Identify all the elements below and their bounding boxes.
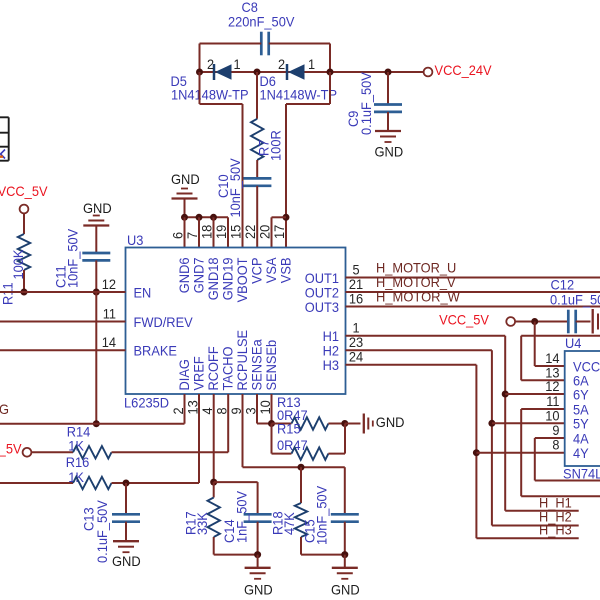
svg-text:C8: C8 xyxy=(242,0,259,15)
svg-text:16: 16 xyxy=(349,291,364,306)
svg-text:1: 1 xyxy=(233,57,240,72)
wire 4A input (pin 9) xyxy=(535,437,565,439)
svg-text:VSB: VSB xyxy=(278,258,293,284)
connector table fragment (clipped at left edge) xyxy=(8,117,10,160)
svg-text:OUT3: OUT3 xyxy=(305,300,340,315)
diode D5 xyxy=(213,64,216,80)
node C9 tap xyxy=(385,69,392,76)
buffer U4 body (SN74LS07) xyxy=(565,351,600,466)
svg-text:R11: R11 xyxy=(1,282,16,305)
svg-text:H_H1: H_H1 xyxy=(539,495,572,510)
wire H3 to 4Y xyxy=(346,364,477,366)
svg-text:GND: GND xyxy=(375,145,404,160)
resistor R17 xyxy=(213,482,215,497)
wire EN to DIAG vertical xyxy=(95,292,97,424)
ground below C15 xyxy=(344,555,346,568)
svg-text:GND: GND xyxy=(331,582,360,597)
svg-text:GND6: GND6 xyxy=(177,257,192,293)
svg-text:5A: 5A xyxy=(573,402,589,417)
svg-text:C12: C12 xyxy=(551,278,575,293)
node RCOFF xyxy=(210,479,217,486)
svg-text:VCC: VCC xyxy=(573,359,600,374)
svg-text:1N4148W-TP: 1N4148W-TP xyxy=(171,87,249,102)
node left diode junction xyxy=(196,69,203,76)
node gnd C14 xyxy=(254,551,261,558)
wire BRAKE (pin 14) xyxy=(0,349,126,351)
wire VCC to U4 pin 14 xyxy=(534,322,536,367)
resistor R7 xyxy=(256,72,258,119)
svg-text:8: 8 xyxy=(552,438,559,453)
svg-text:VCC_5V: VCC_5V xyxy=(0,442,22,457)
capacitor C13 xyxy=(125,483,127,514)
svg-text:22: 22 xyxy=(243,225,258,239)
svg-text:220nF_50V: 220nF_50V xyxy=(228,15,295,30)
svg-text:4Y: 4Y xyxy=(573,446,589,461)
node C11/EN xyxy=(93,289,100,296)
svg-text:1: 1 xyxy=(308,57,315,72)
wire EN (pin 12) xyxy=(0,291,126,293)
wire 5Y stub (pin 10) xyxy=(492,422,565,424)
svg-text:H_H3: H_H3 xyxy=(539,523,572,538)
svg-text:SN74LS07D: SN74LS07D xyxy=(563,467,600,482)
svg-text:10nF_50V: 10nF_50V xyxy=(315,485,330,545)
node gnd C15 xyxy=(341,551,348,558)
svg-text:10: 10 xyxy=(545,408,560,423)
wire R16 to VREF (pin 13) xyxy=(112,482,200,484)
node right diode junction / VCC_24V xyxy=(327,69,334,76)
svg-text:0.1uF_50V: 0.1uF_50V xyxy=(550,293,600,308)
svg-text:1N4148W-TP: 1N4148W-TP xyxy=(260,87,338,102)
svg-text:5: 5 xyxy=(352,262,359,277)
ground right of C12 (sideways) xyxy=(592,309,594,334)
svg-text:1nF_50V: 1nF_50V xyxy=(234,490,249,543)
wire RCOFF (pin 4) xyxy=(213,394,215,482)
svg-text:18: 18 xyxy=(200,224,215,239)
diode D6 xyxy=(286,64,289,80)
svg-text:GND: GND xyxy=(376,415,405,430)
wire 6Y stub (pin 12) xyxy=(505,393,565,395)
wire H_H2 xyxy=(492,525,579,527)
svg-text:DIAG: DIAG xyxy=(0,402,9,417)
wire H_MOTOR_W (OUT3 pin 16) xyxy=(346,306,600,308)
wire gnd bus R18/C15 xyxy=(301,554,345,556)
svg-text:12: 12 xyxy=(102,277,116,292)
wire H_H3 xyxy=(476,537,578,539)
svg-text:4A: 4A xyxy=(573,431,589,446)
svg-text:BRAKE: BRAKE xyxy=(134,344,178,359)
svg-text:TACHO: TACHO xyxy=(221,346,236,390)
wire H1 to 6Y xyxy=(346,335,506,337)
svg-text:SENSEa: SENSEa xyxy=(249,339,264,391)
capacitor C10 xyxy=(243,177,271,180)
svg-text:20: 20 xyxy=(258,224,273,239)
svg-text:19: 19 xyxy=(214,224,229,239)
svg-text:RCPULSE: RCPULSE xyxy=(235,330,250,391)
power terminal VCC_24V xyxy=(424,68,433,77)
svg-text:EN: EN xyxy=(134,285,152,300)
svg-text:H_MOTOR_W: H_MOTOR_W xyxy=(376,290,460,305)
wire H_MOTOR_U (OUT1 pin 5) xyxy=(346,277,600,279)
wire DIAG (pin 2) xyxy=(0,423,185,425)
svg-text:H2: H2 xyxy=(323,344,339,359)
resistor R18 xyxy=(300,467,302,503)
node 5Y/H2 xyxy=(488,420,495,427)
svg-text:6Y: 6Y xyxy=(573,387,589,402)
svg-text:10nF_50V: 10nF_50V xyxy=(228,158,243,218)
svg-text:R15: R15 xyxy=(277,422,301,437)
svg-text:GND18: GND18 xyxy=(206,257,221,300)
svg-text:24: 24 xyxy=(349,350,364,365)
wire VSB route xyxy=(329,72,331,104)
wire SENSEb (pin 10) xyxy=(271,394,273,424)
svg-text:17: 17 xyxy=(272,225,287,239)
node C13 tap xyxy=(123,480,130,487)
svg-text:10nF_50V: 10nF_50V xyxy=(66,228,81,288)
svg-text:14: 14 xyxy=(545,351,560,366)
capacitor C14 xyxy=(257,482,259,514)
svg-text:R14: R14 xyxy=(67,425,91,440)
wire SENSEa (pin 3) xyxy=(256,394,258,424)
svg-text:15: 15 xyxy=(229,224,244,239)
svg-text:R16: R16 xyxy=(66,455,90,470)
wire diode row xyxy=(200,71,429,73)
ground right of R13 (sideways) xyxy=(345,423,361,425)
ground below C9 xyxy=(375,130,401,132)
capacitor C9 xyxy=(387,72,389,105)
capacitor C11 xyxy=(82,252,110,255)
svg-text:14: 14 xyxy=(102,335,117,350)
svg-text:OUT2: OUT2 xyxy=(305,285,339,300)
svg-text:VBOOT: VBOOT xyxy=(235,257,250,302)
svg-text:100R: 100R xyxy=(269,130,284,161)
wire FWD/REV (pin 11) xyxy=(0,321,126,323)
svg-text:6: 6 xyxy=(171,232,186,239)
svg-text:33K: 33K xyxy=(195,511,210,535)
svg-text:GND19: GND19 xyxy=(220,257,235,300)
svg-text:H3: H3 xyxy=(323,358,340,373)
node VSA/VSB join xyxy=(283,214,290,221)
node mid diode junction xyxy=(254,69,261,76)
node R11/EN xyxy=(21,289,28,296)
wire C8 top right xyxy=(269,43,330,45)
wire H2 to 5Y xyxy=(346,349,492,351)
ground below C14 xyxy=(257,555,259,568)
resistor R11 xyxy=(23,213,25,234)
capacitor C15 xyxy=(344,467,346,514)
op-amp U3 body (L6235D) xyxy=(126,248,346,395)
node RCPULSE xyxy=(298,464,305,471)
svg-text:100K: 100K xyxy=(11,249,26,280)
wire H_H1 xyxy=(505,510,579,512)
svg-text:GND: GND xyxy=(244,582,273,597)
wire 4Y stub (pin 8) xyxy=(476,452,564,454)
wire 5A input (pin 11) xyxy=(521,408,565,410)
svg-text:RCOFF: RCOFF xyxy=(206,346,221,390)
svg-text:GND: GND xyxy=(83,201,112,216)
svg-text:9: 9 xyxy=(552,423,559,438)
wire R14 to TACHO (pin 8) xyxy=(112,451,229,453)
node 6Y/H1 xyxy=(502,391,509,398)
svg-text:U3: U3 xyxy=(127,233,144,248)
svg-text:GND7: GND7 xyxy=(191,258,206,294)
wire C8 top left xyxy=(200,43,262,45)
wire H_MOTOR_V (OUT2 pin 21) xyxy=(346,291,600,293)
svg-text:2: 2 xyxy=(278,57,285,72)
svg-text:2: 2 xyxy=(207,57,214,72)
svg-text:21: 21 xyxy=(349,277,363,292)
svg-text:SENSEb: SENSEb xyxy=(264,340,279,391)
svg-text:DIAG: DIAG xyxy=(177,359,192,390)
svg-text:47K: 47K xyxy=(282,511,297,535)
wire VSA to VSB xyxy=(272,216,287,218)
svg-text:7: 7 xyxy=(185,232,200,239)
svg-text:VCC_5V: VCC_5V xyxy=(439,313,490,328)
wire gnd bus pins 6/7/18/19 xyxy=(185,216,229,218)
node sense right xyxy=(341,420,348,427)
svg-text:5Y: 5Y xyxy=(573,417,589,432)
svg-text:11: 11 xyxy=(103,306,116,321)
wire VBOOT route xyxy=(199,72,201,104)
svg-text:12: 12 xyxy=(545,379,559,394)
node on DIAG wire xyxy=(93,420,100,427)
node 4Y/H3 xyxy=(473,449,480,456)
svg-text:L6235D: L6235D xyxy=(124,396,169,411)
svg-text:1: 1 xyxy=(352,321,359,336)
wire gnd bus R17/C14 xyxy=(214,554,258,556)
svg-text:H_MOTOR_V: H_MOTOR_V xyxy=(376,275,456,290)
svg-text:GND: GND xyxy=(112,554,141,569)
svg-text:U4: U4 xyxy=(565,336,582,351)
svg-text:VSA: VSA xyxy=(264,257,279,283)
node VCC/C12 xyxy=(531,318,538,325)
svg-text:11: 11 xyxy=(546,394,559,409)
wire 6A input (pin 13) xyxy=(521,379,565,381)
svg-text:0.1uF_50V: 0.1uF_50V xyxy=(95,499,110,563)
svg-text:VCP: VCP xyxy=(249,258,264,284)
svg-text:VREF: VREF xyxy=(191,356,206,390)
ground below C13 xyxy=(113,540,139,542)
svg-text:FWD/REV: FWD/REV xyxy=(134,315,194,330)
svg-text:GND: GND xyxy=(171,172,200,187)
node sense left xyxy=(268,420,275,427)
svg-text:OUT1: OUT1 xyxy=(305,271,339,286)
wire RCPULSE (pin 9) xyxy=(242,394,244,467)
svg-text:H1: H1 xyxy=(323,329,339,344)
svg-text:H_MOTOR_U: H_MOTOR_U xyxy=(376,261,456,276)
svg-text:VCC_5V: VCC_5V xyxy=(0,184,48,199)
svg-text:0.1uF_50V: 0.1uF_50V xyxy=(359,71,374,135)
svg-text:VCC_24V: VCC_24V xyxy=(435,63,493,78)
svg-text:23: 23 xyxy=(349,335,364,350)
